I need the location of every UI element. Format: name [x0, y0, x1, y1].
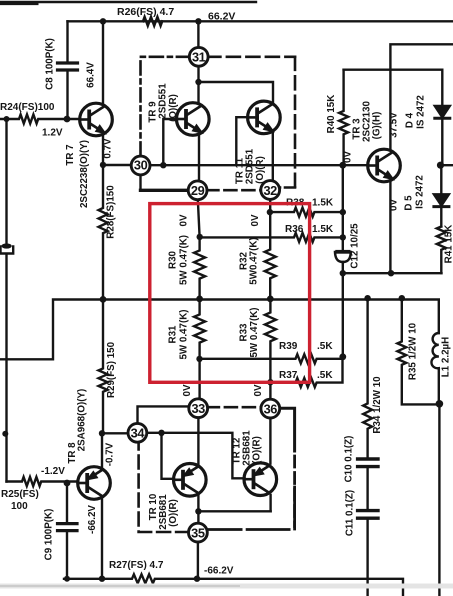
- junction R38 left: [267, 209, 273, 215]
- resistor R28 / R29 chain (TR7 emitter down to TR8): [99, 165, 108, 433]
- svg-text:.5K: .5K: [317, 341, 333, 352]
- svg-text:0V: 0V: [389, 199, 400, 211]
- svg-text:TR 7: TR 7: [65, 144, 76, 166]
- wire node30 down to node29: [139, 174, 141, 190]
- capacitor C8: [66, 21, 68, 119]
- svg-text:-66.2V: -66.2V: [87, 505, 98, 534]
- junction left rail / R24: [4, 116, 10, 122]
- svg-text:-0.7V: -0.7V: [105, 442, 116, 466]
- junction TR8 base / C9: [64, 480, 71, 487]
- wire TR9 collector: [197, 66, 199, 104]
- svg-text:IS 2472: IS 2472: [415, 175, 426, 209]
- wire TR7 emitter to node 30: [103, 164, 132, 166]
- wire TR9 emitter down to node29: [198, 136, 200, 182]
- svg-text:0V: 0V: [253, 384, 264, 396]
- svg-text:(O)(R): (O)(R): [255, 156, 266, 184]
- svg-text:33: 33: [191, 401, 205, 416]
- junction R39 left: [196, 356, 202, 362]
- capacitor C11: [358, 509, 378, 512]
- svg-text:R30: R30: [168, 250, 179, 269]
- svg-text:R24(FS)100: R24(FS)100: [0, 102, 55, 113]
- junction C12 / y273 row: [340, 270, 346, 276]
- svg-text:30: 30: [134, 158, 148, 173]
- svg-text:C8 100P(K): C8 100P(K): [45, 38, 56, 90]
- junction TR8 collector / -66.2V rail: [99, 576, 105, 582]
- junction R39-R37 right: [339, 353, 346, 360]
- resistor R27 on -66.2V rail: [64, 574, 403, 596]
- wire TR8 emitter row to node34: [102, 432, 129, 434]
- resistor R40: [339, 70, 348, 166]
- node 32: [261, 181, 280, 200]
- transistor TR7: [80, 103, 113, 136]
- svg-text:66.2V: 66.2V: [208, 10, 235, 22]
- transistor TR9: [177, 103, 210, 136]
- junction R38 right: [340, 209, 346, 215]
- svg-text:(O)(R): (O)(R): [252, 436, 263, 464]
- svg-text:-66.2V: -66.2V: [204, 566, 234, 577]
- node 31: [189, 47, 208, 66]
- junction D4 / D5: [437, 162, 444, 169]
- resistor R35: [397, 299, 439, 404]
- wire TR10 collector to node35: [197, 496, 199, 524]
- svg-text:(O)(R): (O)(R): [168, 94, 179, 122]
- junction R34 top / mid row: [364, 295, 370, 301]
- svg-text:5W0.47(K): 5W0.47(K): [249, 237, 260, 284]
- svg-text:C10 0.1(Z): C10 0.1(Z): [344, 436, 355, 483]
- junction TR9 base / node30 row: [160, 162, 166, 168]
- wire TR12 emitter (node36 down): [269, 417, 271, 463]
- wire node34 right / TR10 base / TR12 base: [146, 433, 244, 479]
- svg-text:1.5K: 1.5K: [312, 224, 334, 235]
- svg-text:R31: R31: [168, 325, 179, 344]
- wire 66.2V rail: [68, 20, 453, 22]
- connector J left edge: [1, 247, 14, 254]
- junction node35 / -66.2V rail: [194, 576, 200, 582]
- svg-text:2SC2238(O)(Y): 2SC2238(O)(Y): [79, 140, 90, 208]
- junction TR10 collector / node35: [195, 508, 201, 514]
- wire node30 row to TR3 base (y=165): [149, 164, 342, 166]
- junction left rail mark: [2, 431, 8, 437]
- diode D5: [440, 165, 442, 194]
- wire TR9 collector to TR11 collector: [199, 82, 274, 102]
- svg-text:R33: R33: [239, 323, 250, 342]
- vertical labels: [44, 38, 453, 560]
- resistor R33: [265, 299, 276, 400]
- svg-text:C12 10/25: C12 10/25: [350, 223, 361, 269]
- svg-text:1.5K: 1.5K: [312, 198, 334, 209]
- svg-text:1.2V: 1.2V: [42, 128, 63, 139]
- junction C8 / TR7 base: [64, 116, 71, 123]
- capacitor C12 on x=343: [342, 165, 344, 273]
- transistor TR10: [174, 464, 207, 497]
- svg-text:2SD551: 2SD551: [245, 148, 256, 184]
- resistor R31: [194, 299, 205, 400]
- junction TR3 emitter / y273 row: [388, 270, 394, 276]
- svg-text:0V: 0V: [182, 384, 193, 396]
- node 35: [189, 523, 208, 542]
- svg-text:34: 34: [131, 426, 146, 441]
- svg-text:R26(FS) 4.7: R26(FS) 4.7: [117, 6, 174, 18]
- resistor R39: [200, 354, 343, 363]
- transistor TR12: [244, 463, 277, 496]
- junction R36 left: [197, 234, 203, 240]
- wire TR11 emitter to node32: [272, 132, 274, 182]
- resistor R37: [270, 357, 342, 387]
- svg-text:IS 2472: IS 2472: [416, 95, 427, 129]
- transistor TR8 leads: [101, 433, 103, 578]
- svg-text:R35 1/2W 10: R35 1/2W 10: [408, 322, 419, 380]
- diode D4: [441, 70, 443, 106]
- resistor R24: [0, 115, 79, 124]
- wire collector row TR10-TR12: [198, 510, 270, 512]
- node 34: [128, 423, 147, 442]
- horizontal labels: [0, 6, 334, 577]
- svg-text:R37: R37: [279, 370, 298, 381]
- svg-text:29: 29: [191, 183, 205, 198]
- transistor TR11: [248, 101, 281, 134]
- node 29: [188, 181, 207, 200]
- wire TR9 base: [163, 119, 177, 165]
- svg-text:37.5V: 37.5V: [389, 112, 400, 138]
- transistor TR8: [78, 467, 111, 500]
- svg-text:C9 100P(K): C9 100P(K): [44, 509, 55, 561]
- svg-text:R25(FS): R25(FS): [1, 489, 39, 500]
- svg-text:C11 0.1(Z): C11 0.1(Z): [345, 490, 356, 536]
- wire top edge cut-off line: [0, 1, 256, 3]
- svg-text:-1.2V: -1.2V: [41, 466, 65, 477]
- scan artifact gray band: [0, 584, 453, 589]
- dashed box right edge: [293, 456, 296, 527]
- junction R35 / L1 bottom: [436, 400, 444, 408]
- dashed box output: node33-node36 top: [207, 406, 262, 409]
- transistor TR3: [368, 149, 401, 182]
- wire node35 down to rail: [197, 541, 199, 578]
- wire node31 top: [197, 21, 199, 48]
- svg-text:R28(FS)150: R28(FS)150: [106, 185, 117, 239]
- svg-text:R39: R39: [279, 341, 298, 352]
- svg-text:D 5: D 5: [404, 195, 415, 211]
- junction TR7 collector / 66.2V rail: [100, 18, 106, 24]
- svg-text:0.7V: 0.7V: [103, 138, 114, 159]
- svg-text:.5K: .5K: [317, 370, 333, 381]
- junction C9 / -66.2V rail: [64, 576, 70, 582]
- svg-text:D 4: D 4: [405, 112, 416, 128]
- transistor TR7 leads: [102, 21, 104, 165]
- wire x=343 down to R39/R37 join: [342, 273, 344, 357]
- svg-text:(G)(H): (G)(H): [372, 112, 383, 140]
- wire R40 top to D4: [344, 68, 443, 70]
- wire mid row y=298.5 with left jog: [0, 300, 439, 360]
- wire TR11 base: [236, 117, 247, 165]
- wire TR12 collector: [269, 495, 271, 511]
- junction TR7 emitter / node30 row: [100, 162, 106, 168]
- wire TR3 collector: [390, 44, 453, 150]
- svg-text:(O)(R): (O)(R): [168, 499, 179, 527]
- svg-text:2SA968(O)(Y): 2SA968(O)(Y): [77, 389, 88, 452]
- inductor L1: [431, 333, 438, 368]
- svg-text:35: 35: [191, 525, 205, 540]
- junction TR10 base / node34 row: [158, 430, 164, 436]
- resistor chain R30 (node29 down): [194, 199, 205, 299]
- svg-text:36: 36: [264, 401, 278, 416]
- wire TR3 base: [343, 164, 368, 166]
- svg-text:R27(FS) 4.7: R27(FS) 4.7: [109, 560, 164, 571]
- svg-text:R34 1/2W 10: R34 1/2W 10: [372, 376, 383, 434]
- junction R35 top / mid row: [399, 295, 405, 301]
- svg-text:R36: R36: [285, 224, 304, 235]
- node 36: [261, 399, 280, 418]
- dashed box TR9/TR11 top: [207, 55, 295, 58]
- junction R36 right: [340, 234, 346, 240]
- svg-text:0V: 0V: [343, 151, 354, 163]
- wire TR3 emitter: [389, 181, 391, 273]
- wire D4/D5 node to right edge: [441, 164, 453, 166]
- node 30: [131, 156, 150, 175]
- svg-text:0V: 0V: [250, 214, 261, 226]
- resistor chain R32 (node32 down): [265, 199, 276, 299]
- red highlight rectangle: [150, 204, 310, 383]
- wire node36 right corner: [279, 408, 295, 451]
- resistor R26: [143, 17, 162, 26]
- svg-text:L1 2.2µH: L1 2.2µH: [441, 337, 452, 378]
- junction node31 / 66.2V rail: [195, 18, 201, 24]
- svg-text:2SD551: 2SD551: [158, 83, 169, 119]
- junction TR9 collector / TR11 collector: [195, 79, 201, 85]
- svg-text:31: 31: [192, 50, 206, 65]
- svg-text:5W 0.47(K): 5W 0.47(K): [179, 235, 190, 285]
- junction R32-R33 / mid row: [267, 296, 274, 303]
- wire TR10 emitter (node33 down): [197, 417, 199, 464]
- junction TR8 emitter / node34 row: [99, 430, 105, 436]
- resistor R25: [7, 477, 78, 486]
- resistor R41: [437, 227, 446, 274]
- wire y=273 row: [343, 272, 442, 274]
- wire left rail down from R24: [5, 119, 7, 243]
- dashed box edge node31 left down to node30: [141, 57, 190, 157]
- svg-text:R40 15K: R40 15K: [326, 95, 337, 134]
- wire node34 up to node33: [138, 406, 190, 424]
- resistor R34: [363, 299, 372, 458]
- svg-text:5W 0.47(K): 5W 0.47(K): [179, 309, 190, 359]
- svg-text:5W 0.47(K): 5W 0.47(K): [249, 307, 260, 357]
- capacitor C9: [66, 483, 68, 522]
- node 33: [189, 399, 208, 418]
- junction R37 left: [267, 379, 273, 385]
- junction R30-R31 / mid row: [196, 296, 203, 303]
- junction R28-R29 / mid row: [100, 296, 107, 303]
- svg-text:R41 15K: R41 15K: [444, 225, 453, 264]
- junction TR3 base / R40: [339, 162, 346, 169]
- svg-text:66.4V: 66.4V: [86, 62, 97, 88]
- resistor R36: [200, 233, 343, 242]
- svg-text:100: 100: [11, 501, 28, 512]
- svg-text:0V: 0V: [179, 214, 190, 226]
- resistor R38: [270, 208, 343, 217]
- capacitor C10: [358, 457, 378, 460]
- dashed box bottom left: [139, 442, 190, 533]
- svg-text:R29(FS) 150: R29(FS) 150: [106, 341, 117, 398]
- svg-text:32: 32: [263, 183, 277, 198]
